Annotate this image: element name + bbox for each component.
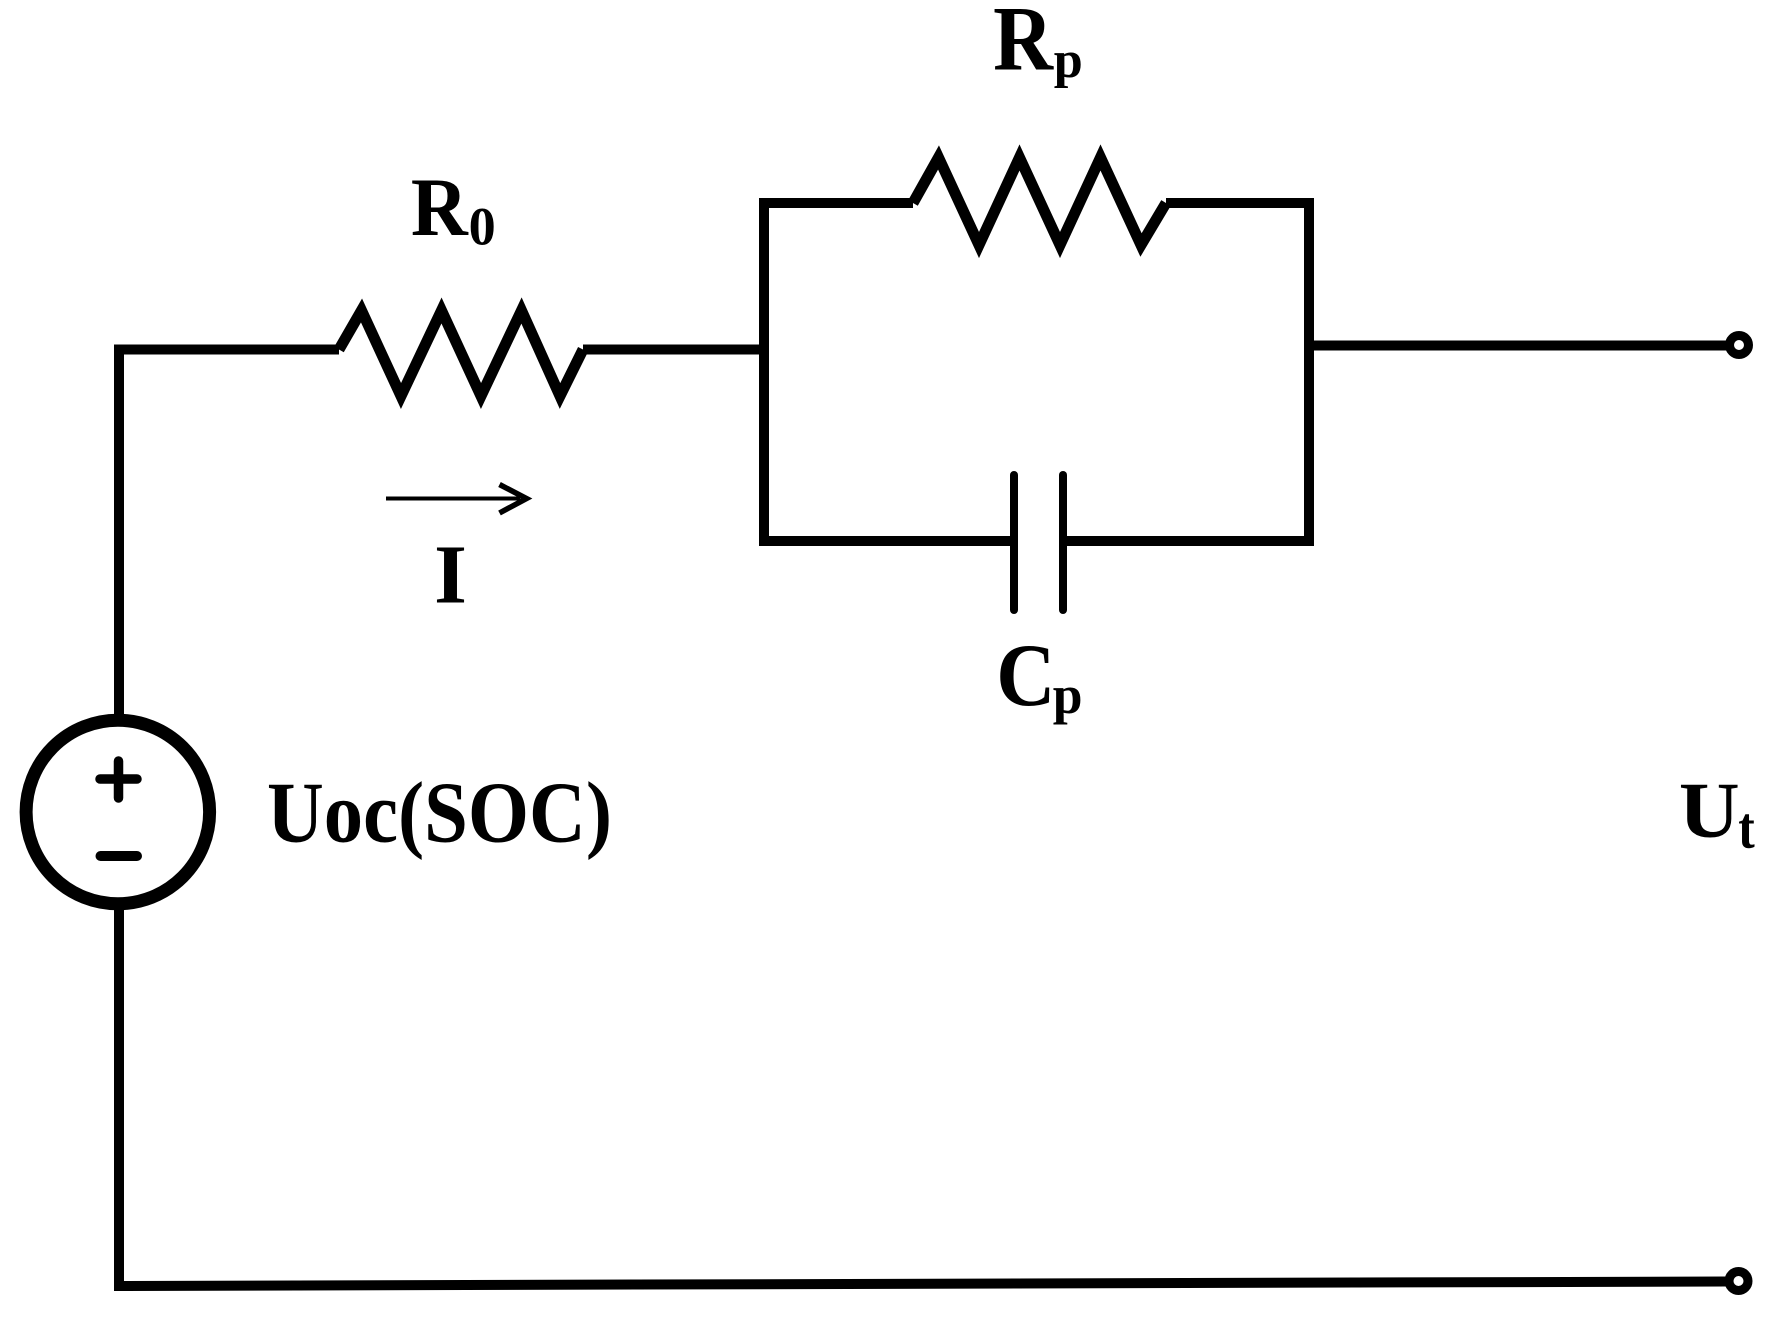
- terminal top-right: [1730, 336, 1749, 355]
- wire: R0 to RC box: [583, 345, 769, 355]
- svg-text:p: p: [1054, 31, 1083, 89]
- resistor R0 zigzag: [339, 311, 583, 397]
- RC box left side (top-left, left vertical, bottom-left up to capacitor left plate): [764, 203, 1010, 541]
- voltage source plus sign: [100, 761, 137, 798]
- svg-text:I: I: [434, 529, 467, 622]
- wire: top-left horizontal + left vertical down to source top: [119, 350, 339, 717]
- voltage source minus sign: [101, 851, 138, 861]
- wire: RC box to top-right terminal: [1309, 341, 1727, 351]
- svg-text:C: C: [996, 627, 1055, 725]
- wire: source bottom, bottom-left corner, bottom horizontal to terminal: [119, 908, 1726, 1286]
- current arrow I shaft: [386, 497, 520, 501]
- capacitor Cp left plate: [1010, 475, 1018, 610]
- terminal bottom-right: [1729, 1272, 1748, 1291]
- svg-text:t: t: [1738, 795, 1755, 861]
- svg-text:Uoc(SOC): Uoc(SOC): [267, 765, 612, 861]
- resistor Rp zigzag: [913, 158, 1166, 246]
- svg-text:R: R: [993, 0, 1054, 90]
- svg-text:R: R: [411, 162, 469, 253]
- RC box right side (top-right, right vertical, bottom-right up to capacitor right plate): [1067, 203, 1309, 541]
- svg-text:U: U: [1679, 767, 1740, 855]
- current arrow I head: [500, 485, 527, 514]
- voltage source U_oc circle: [26, 720, 210, 904]
- svg-text:p: p: [1053, 665, 1083, 725]
- capacitor Cp right plate: [1059, 475, 1067, 610]
- svg-text:0: 0: [469, 197, 496, 257]
